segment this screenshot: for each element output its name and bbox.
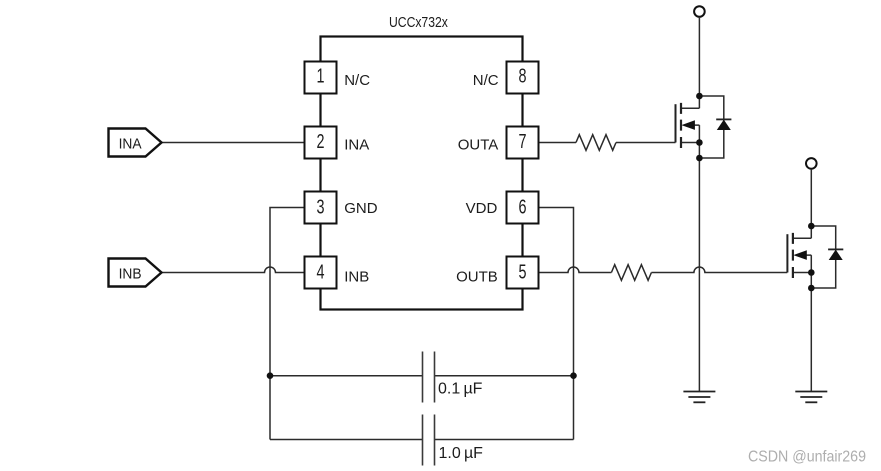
svg-text:N/C: N/C [344,72,370,89]
wire INB tag to pin 4 (hop over GND rail) [162,267,305,273]
svg-text:3: 3 [316,195,324,218]
body diode D1 [699,96,731,158]
svg-text:N/C: N/C [473,72,499,89]
junction dot Q1 drain [696,93,703,100]
junction dot Q1 bottom node [696,155,703,162]
svg-text:2: 2 [316,130,324,153]
wire 1.0uF row left [270,439,423,441]
pin 4 [305,257,337,289]
pin 6 [507,192,539,224]
wire 0.1uF row left [270,375,423,377]
body diode D2 [811,226,843,288]
input tag INA [109,129,162,157]
pin 3 [305,192,337,224]
junction dot right rail / 0.1uF [570,372,577,379]
wire R2 to Q2 gate (hop over Q1 source line) [651,267,787,273]
svg-text:OUTB: OUTB [456,269,498,286]
wire OUTB pin 5 to resistor R2 (hop over VDD rail) [539,267,612,273]
wire INA tag to pin 2 [162,142,305,144]
svg-text:0.1 µF: 0.1 µF [438,381,483,398]
svg-text:GND: GND [344,200,378,217]
junction dot Q2 drain [808,223,815,230]
wire Q2 source to ground [810,288,812,392]
svg-text:CSDN @unfair269: CSDN @unfair269 [748,448,866,466]
svg-text:7: 7 [518,130,526,153]
svg-text:INA: INA [344,136,369,153]
wire R1 to Q1 gate [616,142,676,144]
svg-text:1.0 µF: 1.0 µF [439,445,484,462]
wire OUTA pin 7 to resistor R1 [539,142,577,144]
capacitor C1 0.1uF plates [423,352,435,403]
junction dot Q2 source [808,269,815,276]
wire T1 to Q1 drain [698,17,700,96]
junction dot Q2 bottom node [808,285,815,292]
terminal T2 (Q2 drain supply) [806,158,817,169]
svg-text:INA: INA [119,136,142,153]
ground symbol G1 [683,392,715,403]
resistor R1 [576,135,616,151]
svg-text:8: 8 [518,64,526,87]
wire GND pin 3 to left rail down to bypass caps [270,208,305,440]
IC U1 outline [321,37,523,310]
junction dot Q1 source [696,139,703,146]
svg-text:VDD: VDD [466,200,498,217]
wire T2 to Q2 drain [810,169,812,226]
svg-text:6: 6 [518,195,526,218]
capacitor C2 1.0uF plates [423,415,435,466]
svg-text:INB: INB [344,269,369,286]
svg-text:INB: INB [119,266,142,283]
input tag INB [109,259,162,287]
transistor Q1 [676,96,700,158]
svg-text:OUTA: OUTA [458,136,499,153]
pin 7 [507,127,539,159]
terminal T1 (Q1 drain supply) [694,6,705,17]
pin 8 [507,62,539,94]
ground symbol G2 [795,392,827,403]
pin 5 [507,257,539,289]
junction dot left rail / 0.1uF [267,372,274,379]
wire VDD pin 6 to right rail down to bypass caps [539,208,574,440]
pin 2 [305,127,337,159]
wire 1.0uF row right [435,439,574,441]
wire Q1 source to ground [698,158,700,392]
svg-text:4: 4 [316,260,324,283]
transistor Q2 [787,226,811,288]
svg-text:5: 5 [518,260,526,283]
svg-text:1: 1 [316,64,324,87]
resistor R2 [611,265,651,281]
svg-text:UCCx732x: UCCx732x [389,14,448,30]
wire 0.1uF row right [435,375,574,377]
pin 1 [305,62,337,94]
